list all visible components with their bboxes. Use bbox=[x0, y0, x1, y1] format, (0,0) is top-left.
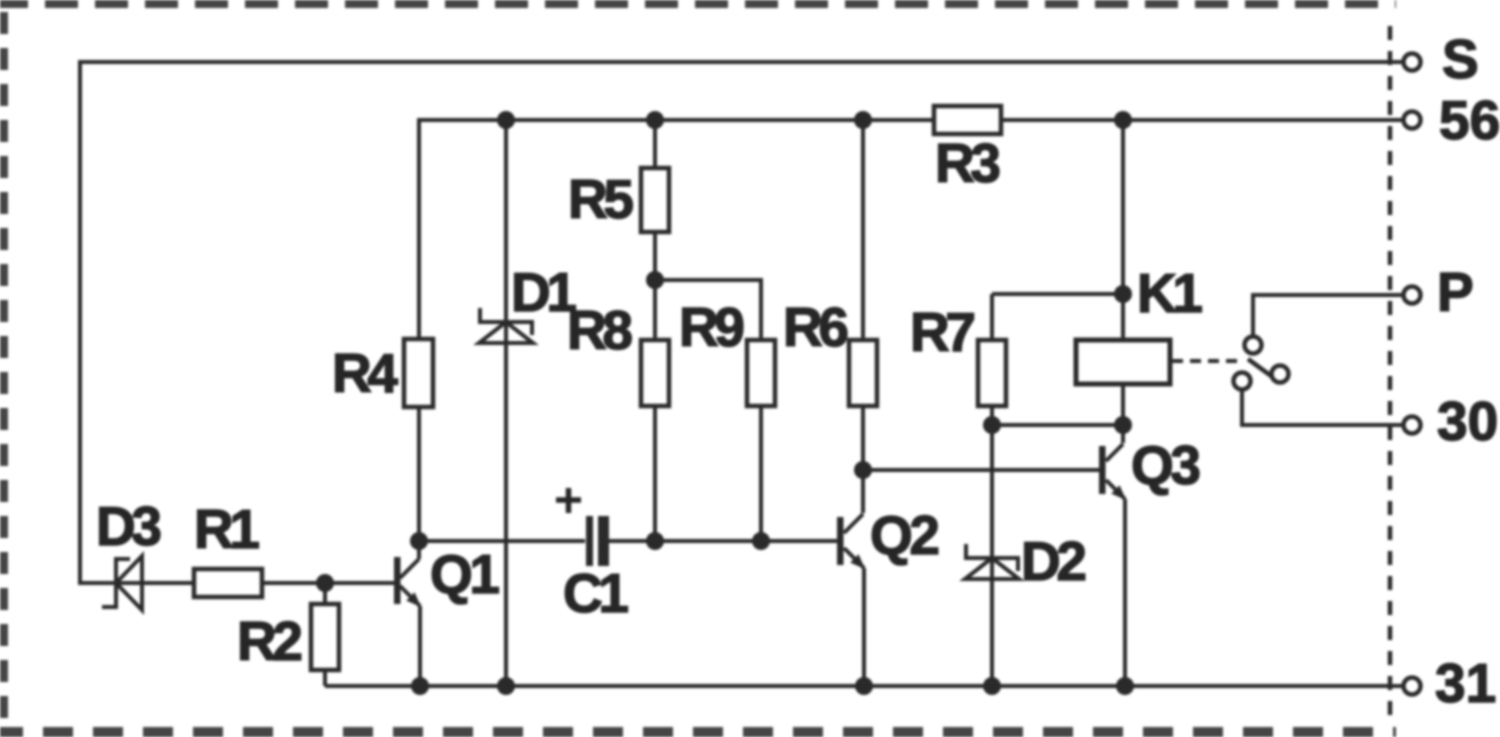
svg-text:Q1: Q1 bbox=[430, 543, 500, 605]
svg-text:R6: R6 bbox=[783, 296, 849, 358]
svg-text:Q2: Q2 bbox=[870, 504, 940, 566]
svg-text:R8: R8 bbox=[567, 299, 633, 361]
svg-text:S: S bbox=[1442, 28, 1479, 90]
svg-text:D2: D2 bbox=[1021, 530, 1087, 592]
svg-text:R7: R7 bbox=[910, 301, 976, 363]
svg-text:P: P bbox=[1437, 261, 1474, 323]
svg-text:R5: R5 bbox=[568, 168, 634, 230]
svg-text:56: 56 bbox=[1439, 89, 1500, 151]
svg-text:30: 30 bbox=[1437, 390, 1498, 452]
svg-text:C1: C1 bbox=[563, 562, 629, 624]
svg-text:R1: R1 bbox=[194, 498, 260, 560]
svg-text:R4: R4 bbox=[332, 342, 398, 404]
svg-text:D3: D3 bbox=[96, 495, 162, 557]
svg-text:R9: R9 bbox=[679, 296, 745, 358]
svg-text:Q3: Q3 bbox=[1131, 434, 1201, 496]
svg-text:31: 31 bbox=[1435, 652, 1496, 714]
svg-text:R2: R2 bbox=[237, 610, 303, 672]
svg-text:K1: K1 bbox=[1137, 262, 1203, 324]
svg-text:R3: R3 bbox=[935, 132, 1001, 194]
